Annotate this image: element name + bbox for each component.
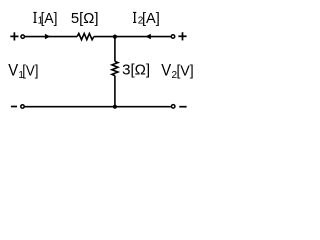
label 3 ohm [122,61,150,78]
terminal circle port2 top [171,35,175,39]
terminal minus port1 [11,106,17,108]
svg-text:V: V [161,62,171,80]
terminal minus port2 [179,106,186,108]
vertical wire upper [114,37,116,62]
svg-text:[A]: [A] [41,10,58,27]
terminal plus port1 top [10,32,18,40]
svg-text:[A]: [A] [142,10,160,27]
svg-text:5[Ω]: 5[Ω] [71,10,99,27]
terminal plus port2 top [178,32,186,40]
label 5 ohm [71,10,99,27]
terminal circle port2 bottom [171,105,175,109]
svg-text:[V]: [V] [177,62,194,79]
svg-text:V: V [8,62,18,80]
junction node bottom [113,105,117,109]
wire top left [25,36,77,38]
label V1[V] [8,62,38,81]
junction node top [113,35,117,39]
vertical wire lower [114,76,116,107]
current arrow I1 [45,34,50,39]
terminal circle port1 top [21,35,25,39]
wire top right [94,36,171,38]
current arrow I2 [145,34,150,39]
svg-text:3[Ω]: 3[Ω] [122,61,150,78]
resistor 5 ohm zigzag [77,34,94,40]
resistor 3 ohm zigzag [112,61,118,75]
label I2[A] [133,10,160,27]
label V2[V] [161,62,193,81]
wire bottom [25,106,171,108]
svg-text:[V]: [V] [22,62,38,79]
label I1[A] [33,10,57,27]
terminal circle port1 bottom [21,105,25,109]
